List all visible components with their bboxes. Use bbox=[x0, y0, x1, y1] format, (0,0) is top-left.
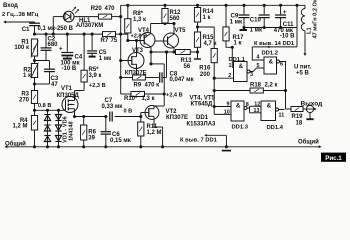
svg-text:0 В: 0 В bbox=[124, 108, 133, 114]
svg-text:+5 В: +5 В bbox=[296, 70, 310, 76]
svg-text:КП305Д: КП305Д bbox=[57, 93, 80, 99]
svg-text:C9: C9 bbox=[231, 13, 239, 19]
svg-text:-10 В: -10 В bbox=[280, 33, 295, 39]
svg-text:1 к: 1 к bbox=[234, 40, 242, 46]
svg-text:270: 270 bbox=[19, 97, 30, 103]
svg-text:R9: R9 bbox=[134, 82, 142, 88]
svg-text:R18: R18 bbox=[250, 83, 262, 89]
svg-text:1 мк: 1 мк bbox=[250, 28, 262, 34]
svg-text:DD1.1: DD1.1 bbox=[229, 57, 246, 63]
svg-text:680: 680 bbox=[48, 42, 59, 48]
svg-text:0,1 мк-250 В: 0,1 мк-250 В bbox=[38, 26, 74, 32]
svg-text:U пит.: U пит. bbox=[294, 64, 312, 70]
svg-text:10: 10 bbox=[224, 109, 230, 115]
svg-text:DD1.4: DD1.4 bbox=[267, 125, 284, 131]
svg-text:DD1.2: DD1.2 bbox=[262, 51, 278, 57]
svg-text:1N4148: 1N4148 bbox=[69, 121, 75, 141]
svg-text:1 мк: 1 мк bbox=[230, 20, 242, 26]
svg-text:&: & bbox=[269, 58, 274, 65]
svg-text:100 к: 100 к bbox=[14, 45, 29, 51]
svg-text:12: 12 bbox=[254, 101, 260, 107]
svg-text:5: 5 bbox=[257, 63, 260, 69]
svg-text:3,9 к: 3,9 к bbox=[89, 73, 102, 79]
svg-text:DD1.3: DD1.3 bbox=[232, 125, 249, 131]
svg-text:3: 3 bbox=[250, 72, 253, 78]
svg-text:&: & bbox=[267, 102, 272, 109]
svg-text:К выв. 7 DD1: К выв. 7 DD1 bbox=[180, 138, 218, 144]
svg-text:8: 8 bbox=[246, 102, 249, 108]
svg-text:560: 560 bbox=[170, 16, 181, 22]
svg-text:9: 9 bbox=[227, 101, 230, 107]
svg-text:VT3: VT3 bbox=[132, 48, 144, 54]
svg-text:C1: C1 bbox=[22, 27, 30, 33]
svg-text:&: & bbox=[239, 63, 244, 70]
svg-text:R13: R13 bbox=[181, 58, 193, 64]
svg-text:0,047 мк: 0,047 мк bbox=[170, 77, 194, 83]
svg-text:К1533ЛА3: К1533ЛА3 bbox=[187, 122, 217, 128]
svg-text:39: 39 bbox=[88, 136, 95, 142]
svg-text:+2,3 В: +2,3 В bbox=[89, 83, 106, 89]
svg-text:1,3 к: 1,3 к bbox=[133, 17, 146, 23]
svg-text:0,8 В: 0,8 В bbox=[38, 103, 51, 109]
svg-text:18: 18 bbox=[296, 121, 303, 127]
svg-text:Общий: Общий bbox=[5, 141, 26, 148]
svg-text:VT5: VT5 bbox=[175, 28, 187, 34]
svg-text:КТ645Д: КТ645Д bbox=[191, 101, 213, 107]
svg-text:1,2 М: 1,2 М bbox=[147, 130, 162, 136]
svg-text:1 мк: 1 мк bbox=[99, 56, 111, 62]
svg-text:6: 6 bbox=[280, 62, 283, 68]
svg-text:2,2 к: 2,2 к bbox=[265, 83, 278, 89]
svg-text:0,33 мк: 0,33 мк bbox=[102, 104, 123, 110]
svg-text:Рис.1: Рис.1 bbox=[325, 155, 342, 162]
svg-text:DD1: DD1 bbox=[196, 115, 209, 121]
svg-text:75: 75 bbox=[111, 38, 118, 44]
svg-text:+: + bbox=[59, 46, 63, 53]
svg-text:R20: R20 bbox=[91, 6, 103, 12]
svg-text:+2,4 В: +2,4 В bbox=[166, 93, 183, 99]
svg-text:R16: R16 bbox=[199, 66, 211, 72]
svg-text:1,2 М: 1,2 М bbox=[12, 124, 27, 130]
svg-text:47: 47 bbox=[51, 82, 58, 88]
svg-text:Общий: Общий bbox=[298, 138, 319, 145]
svg-text:1 к: 1 к bbox=[23, 73, 31, 79]
svg-text:11: 11 bbox=[279, 113, 285, 119]
svg-text:2 Гц...38 МГц: 2 Гц...38 МГц bbox=[2, 12, 39, 18]
svg-text:R10*: R10* bbox=[124, 96, 138, 102]
svg-text:АЛ307КМ: АЛ307КМ bbox=[76, 23, 103, 29]
svg-text:0,15 мк: 0,15 мк bbox=[110, 138, 131, 144]
svg-text:Вход: Вход bbox=[3, 3, 18, 9]
svg-text:47 мкГн 0,2 Ом: 47 мкГн 0,2 Ом bbox=[313, 0, 319, 39]
svg-text:470 к: 470 к bbox=[145, 82, 160, 88]
svg-text:C10: C10 bbox=[250, 18, 262, 24]
svg-text:200: 200 bbox=[200, 72, 211, 78]
svg-text:1: 1 bbox=[229, 63, 232, 69]
svg-text:1,3 к: 1,3 к bbox=[142, 96, 155, 102]
svg-text:13: 13 bbox=[254, 108, 260, 114]
svg-text:VT1: VT1 bbox=[61, 86, 73, 92]
svg-text:4: 4 bbox=[257, 55, 260, 61]
svg-text:Выход: Выход bbox=[301, 101, 323, 108]
svg-text:КП307Е: КП307Е bbox=[166, 115, 188, 121]
svg-text:&: & bbox=[236, 102, 241, 109]
svg-text:1 к: 1 к bbox=[203, 15, 211, 21]
svg-text:2: 2 bbox=[228, 73, 231, 79]
svg-text:470: 470 bbox=[105, 6, 116, 12]
svg-text:+: + bbox=[283, 9, 287, 16]
svg-text:-10 В: -10 В bbox=[62, 66, 77, 72]
svg-text:VT4: VT4 bbox=[138, 28, 150, 34]
svg-text:56: 56 bbox=[184, 64, 191, 70]
svg-text:R19: R19 bbox=[292, 114, 304, 120]
svg-text:К выв. 14 DD1: К выв. 14 DD1 bbox=[254, 41, 295, 47]
svg-text:R7: R7 bbox=[101, 38, 109, 44]
